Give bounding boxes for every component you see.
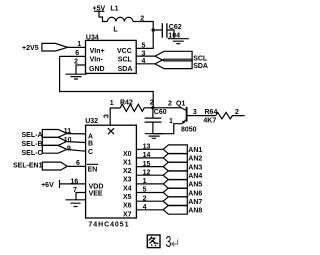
svg-text:1: 1 — [77, 41, 81, 48]
svg-text:A: A — [88, 134, 93, 141]
svg-text:SEL-EN1: SEL-EN1 — [13, 163, 43, 170]
svg-text:2: 2 — [74, 59, 78, 66]
svg-text:2: 2 — [140, 16, 144, 23]
svg-text:VIn+: VIn+ — [90, 48, 105, 55]
svg-text:3: 3 — [102, 114, 111, 118]
svg-text:1: 1 — [110, 100, 114, 107]
svg-text:AN3: AN3 — [188, 164, 202, 171]
svg-text:C: C — [88, 149, 93, 156]
svg-text:SDA: SDA — [118, 66, 133, 73]
svg-text:104: 104 — [168, 33, 180, 40]
svg-text:L: L — [113, 26, 118, 33]
svg-text:14: 14 — [143, 152, 151, 159]
svg-text:7: 7 — [73, 187, 77, 194]
svg-text:SEL-C: SEL-C — [22, 150, 43, 157]
svg-text:AN1: AN1 — [188, 147, 202, 154]
svg-text:U34: U34 — [86, 34, 99, 41]
svg-text:X6: X6 — [123, 203, 132, 210]
svg-text:16: 16 — [71, 179, 79, 186]
svg-text:SEL-A: SEL-A — [22, 132, 43, 139]
svg-text:VCC: VCC — [117, 48, 132, 55]
svg-text:15: 15 — [143, 161, 151, 168]
svg-text:C62: C62 — [169, 24, 182, 31]
svg-text:GND: GND — [89, 66, 105, 73]
svg-text:3: 3 — [142, 51, 146, 58]
svg-text:X1: X1 — [123, 159, 132, 166]
svg-text:AN6: AN6 — [188, 190, 202, 197]
svg-text:4: 4 — [142, 58, 146, 65]
svg-text:B: B — [88, 141, 93, 148]
svg-text:9: 9 — [67, 146, 71, 153]
svg-text:EN: EN — [88, 167, 98, 174]
svg-text:X4: X4 — [123, 185, 132, 192]
svg-text:6: 6 — [75, 50, 79, 57]
svg-text:X0: X0 — [123, 151, 132, 158]
svg-text:4K7: 4K7 — [203, 118, 216, 125]
svg-text:AN4: AN4 — [188, 173, 202, 180]
svg-text:8050: 8050 — [181, 127, 197, 134]
svg-text:10: 10 — [64, 137, 72, 144]
svg-text:11: 11 — [64, 128, 72, 135]
svg-text:VEE: VEE — [89, 191, 103, 198]
svg-text:+2V5: +2V5 — [22, 45, 39, 52]
svg-text:+6V: +6V — [41, 182, 54, 189]
svg-text:2: 2 — [168, 100, 172, 107]
svg-text:R42: R42 — [120, 100, 133, 107]
svg-text:12: 12 — [143, 169, 151, 176]
svg-text:AN8: AN8 — [188, 208, 202, 215]
svg-text:13: 13 — [143, 144, 151, 151]
svg-text:1: 1 — [143, 178, 147, 185]
svg-text:R64: R64 — [205, 109, 218, 116]
svg-text:2: 2 — [150, 100, 154, 107]
svg-text:4: 4 — [143, 204, 147, 211]
svg-text:5: 5 — [142, 43, 146, 50]
svg-text:AN2: AN2 — [188, 156, 202, 163]
svg-text:U32: U32 — [85, 118, 98, 125]
svg-text:VIn-: VIn- — [90, 57, 104, 64]
svg-text:AN5: AN5 — [188, 182, 202, 189]
svg-text:Q1: Q1 — [176, 100, 185, 107]
svg-text:+5V: +5V — [93, 5, 106, 12]
svg-text:VDD: VDD — [89, 183, 104, 190]
svg-text:6: 6 — [76, 160, 80, 167]
svg-text:X5: X5 — [123, 194, 132, 201]
svg-text:X3: X3 — [123, 177, 132, 184]
svg-text:2: 2 — [143, 195, 147, 202]
svg-text:1: 1 — [169, 118, 173, 125]
svg-text:5: 5 — [143, 187, 147, 194]
svg-text:AN7: AN7 — [188, 199, 202, 206]
svg-text:X7: X7 — [123, 211, 132, 218]
svg-text:2: 2 — [235, 109, 239, 116]
svg-text:X2: X2 — [123, 168, 132, 175]
svg-text:SDA: SDA — [193, 63, 208, 70]
svg-text:74HC4051: 74HC4051 — [88, 221, 129, 228]
svg-text:3: 3 — [193, 109, 197, 116]
svg-text:SEL-B: SEL-B — [22, 141, 43, 148]
svg-text:C60: C60 — [154, 109, 167, 116]
svg-text:3: 3 — [166, 233, 172, 251]
svg-text:SCL: SCL — [118, 57, 133, 64]
svg-text:L1: L1 — [110, 5, 118, 12]
svg-text:SCL: SCL — [193, 55, 208, 62]
